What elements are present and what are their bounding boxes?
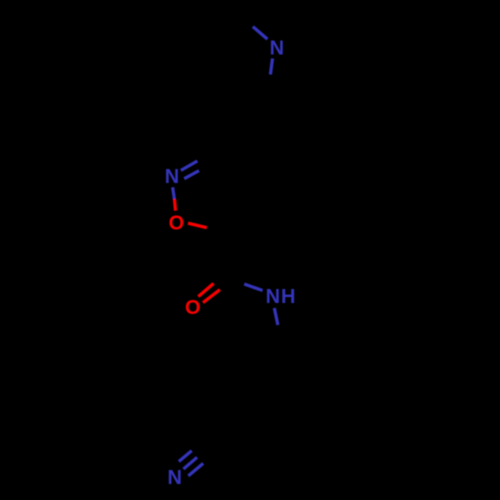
wire: amide C-N half-bond <box>244 284 262 291</box>
wire: isoxazole N-O bond lower (red) half <box>174 199 175 211</box>
svg-text:O: O <box>185 297 201 319</box>
svg-text:O: O <box>169 212 185 234</box>
wire: carbonyl C=O double bond line B (red half) <box>203 290 220 303</box>
wire: nitrile triple bond line 3 (blue half) <box>188 463 203 476</box>
wire: carbonyl C=O double bond line A (red half) <box>198 284 213 297</box>
svg-text:N: N <box>270 37 284 59</box>
svg-text:N: N <box>165 166 179 188</box>
wire: isoxazole N-O bond upper (blue) half <box>173 187 175 199</box>
wire: nitrile triple bond line 1 (blue half) <box>179 451 192 462</box>
wire: isoxazole O-C5 half-bond <box>188 223 207 228</box>
wire: isoxazole C3=N double bond inner line (blue half) <box>184 171 199 179</box>
wire: isoxazole C3=N double bond main line (blue half) <box>181 161 198 170</box>
svg-text:N: N <box>266 286 280 308</box>
svg-text:N: N <box>167 467 181 489</box>
wire: top N to ring C half-bond <box>270 58 272 74</box>
wire: amide N-aryl half-bond <box>274 308 278 325</box>
wire: N-methyl half-bond at top N <box>253 27 268 39</box>
wire: nitrile triple bond line 2 (blue half) <box>183 457 197 469</box>
svg-text:H: H <box>281 286 295 308</box>
